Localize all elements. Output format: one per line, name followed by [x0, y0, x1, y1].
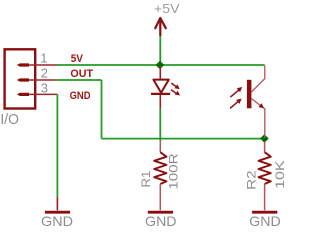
net label GND — [70, 90, 91, 102]
connector J1 body — [5, 49, 36, 108]
resistor R2 zigzag — [259, 152, 271, 184]
svg-text:OUT: OUT — [70, 68, 93, 80]
svg-text:R1: R1 — [139, 170, 153, 187]
resistor R1 bottom lead — [159, 184, 161, 210]
connector pin 2 line — [29, 79, 57, 81]
LED triangle — [153, 80, 168, 93]
connector pin 3 stub — [17, 93, 29, 96]
ground symbol left label — [41, 213, 73, 229]
phototransistor collector — [251, 66, 264, 93]
svg-text:GND: GND — [70, 90, 91, 102]
resistor R2 name — [245, 170, 259, 190]
wire LED cathode to R1 — [159, 109, 161, 141]
supply label +5V — [154, 1, 180, 16]
ground symbol left bar — [45, 211, 70, 214]
svg-text:GND: GND — [249, 213, 281, 229]
resistor R1 name — [139, 170, 153, 187]
junction node at +5V rail — [156, 61, 165, 70]
wire OUT horizontal from pin2 — [57, 79, 102, 81]
svg-text:3: 3 — [41, 80, 48, 95]
ground symbol right label — [249, 213, 281, 229]
LED cathode lead — [159, 95, 161, 109]
svg-text:I/O: I/O — [0, 111, 19, 128]
svg-text:+5V: +5V — [154, 1, 180, 16]
connector pin 2 stub — [17, 78, 29, 81]
LED emission arrow 2 — [171, 90, 180, 96]
LED cathode bar — [151, 93, 170, 95]
ground symbol right bar — [252, 211, 277, 214]
connector pin 1 stub — [17, 63, 29, 66]
resistor R2 top lead — [264, 142, 266, 153]
svg-text:GND: GND — [145, 213, 177, 229]
wire junction to R2 — [264, 139, 266, 143]
svg-text:10K: 10K — [273, 160, 287, 189]
resistor R1 value 100R — [166, 153, 180, 190]
ground symbol middle bar — [148, 211, 173, 214]
resistor R2 value 10K — [273, 160, 287, 189]
wire 5V rail — [57, 64, 265, 66]
resistor R1 zigzag — [154, 152, 166, 184]
supply symbol +5V arrow — [155, 18, 166, 36]
wire GND from pin3 down — [56, 94, 58, 197]
phototransistor light arrow 2 — [230, 99, 242, 109]
phototransistor base bar — [247, 80, 252, 109]
connector pin 1 line — [29, 64, 57, 66]
connector name label I/O — [0, 111, 19, 128]
resistor R1 top lead — [159, 140, 161, 152]
wire OUT lower horizontal — [102, 138, 265, 140]
svg-text:2: 2 — [41, 65, 48, 80]
junction node at phototransistor emitter — [260, 134, 269, 143]
net label OUT — [70, 68, 93, 80]
LED emission arrow 1 — [171, 83, 179, 89]
pin number 1 — [40, 50, 47, 65]
wire OUT vertical — [101, 80, 103, 139]
pin number 3 — [41, 80, 48, 95]
svg-text:1: 1 — [40, 50, 47, 65]
phototransistor light arrow 1 — [230, 87, 242, 97]
svg-text:100R: 100R — [166, 153, 180, 190]
svg-text:5V: 5V — [71, 53, 84, 65]
svg-text:R2: R2 — [245, 170, 259, 190]
LED anode lead — [159, 66, 161, 79]
ground symbol middle label — [145, 213, 177, 229]
resistor R2 bottom lead — [264, 184, 266, 210]
wire +5V drop — [159, 36, 161, 66]
svg-text:GND: GND — [41, 213, 73, 229]
phototransistor emitter — [251, 99, 264, 138]
ground symbol left lead — [56, 198, 58, 211]
connector pin 3 line — [29, 93, 57, 95]
net label 5V — [71, 53, 84, 65]
pin number 2 — [41, 65, 48, 80]
